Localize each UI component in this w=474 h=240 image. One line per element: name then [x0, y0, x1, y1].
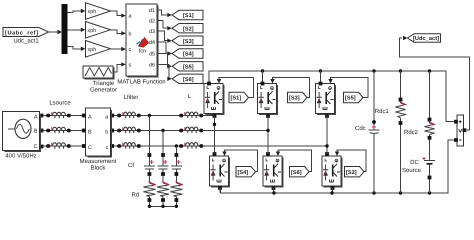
bottom rail junction Cdc — [372, 191, 375, 194]
resistor Rd2 — [157, 182, 169, 197]
svg-text:b: b — [105, 130, 108, 136]
svg-text:DC: DC — [410, 159, 419, 166]
leg3 node — [325, 144, 328, 147]
wire measurement b to Lfilter — [114, 130, 118, 132]
wire triangle generator to fcn s — [113, 62, 126, 72]
gate wire S5 — [328, 78, 368, 98]
inductor Lsource C — [46, 143, 71, 149]
wire L to bridge leg 2 — [203, 130, 269, 132]
wire d4 to goto S4 — [157, 42, 172, 56]
svg-text:xph: xph — [88, 28, 97, 34]
IGBT/Diode S2 — [322, 156, 342, 187]
inductor Lfilter c — [117, 143, 141, 149]
svg-text:[S5]: [S5] — [183, 64, 194, 71]
collector port S5 — [319, 82, 323, 86]
wire gain2 to fcn b — [111, 30, 126, 36]
MATLAB logo — [137, 37, 150, 48]
svg-text:Cdc: Cdc — [355, 125, 366, 132]
rail junction leg2 — [261, 69, 264, 72]
node phase a filter tap — [148, 114, 151, 117]
inductor L a — [179, 112, 203, 118]
svg-text:c: c — [129, 47, 132, 53]
gate wire S1 — [217, 78, 254, 98]
svg-text:xph: xph — [88, 47, 97, 53]
collector port S3 — [261, 82, 265, 86]
svg-text:a: a — [105, 115, 108, 121]
svg-text:Lfilter: Lfilter — [124, 94, 139, 101]
gate wire S4 — [222, 150, 257, 172]
label Triangle Generator — [90, 80, 117, 94]
wire d5 to goto S5 — [157, 54, 172, 69]
svg-text:a: a — [129, 14, 132, 20]
from tag S3 — [288, 92, 308, 102]
Cdc port — [372, 120, 376, 124]
gain xph 1 — [86, 3, 111, 20]
wire Cf branch 2 vertical — [162, 131, 164, 167]
inductor Lfilter b — [117, 127, 141, 133]
svg-text:Source: Source — [402, 167, 422, 174]
wire d3 to goto S3 — [157, 31, 172, 43]
wire d2 to goto S2 — [157, 21, 172, 31]
wire d6 to goto S6 — [157, 65, 172, 82]
wire L to bridge leg 3 — [203, 145, 328, 147]
svg-text:Triangle: Triangle — [93, 80, 115, 87]
svg-text:[S4]: [S4] — [183, 51, 194, 58]
voltage measurement block — [454, 115, 466, 146]
bottom DC rail — [221, 140, 454, 193]
wire Lsource B to measurement block — [70, 130, 84, 132]
svg-text:[S2]: [S2] — [346, 169, 357, 176]
resistor Rdc2 — [425, 122, 435, 135]
wire d1 to goto S1 — [157, 10, 172, 17]
wire Rd2 to star point — [161, 197, 165, 207]
from tag S1 — [229, 92, 249, 102]
capacitor Cf1 — [144, 160, 155, 169]
IGBT/Diode S3 — [258, 84, 278, 115]
svg-text:d2: d2 — [149, 19, 155, 25]
svg-text:Block: Block — [91, 165, 107, 172]
goto tag S5 — [172, 62, 203, 71]
svg-text:Rdc1: Rdc1 — [375, 108, 390, 115]
IGBT/Diode S1 — [204, 84, 224, 115]
collector wire leg3 — [320, 71, 322, 84]
MATLAB Function block — [126, 4, 157, 76]
label DC Source — [402, 159, 422, 174]
wire Cf branch 3 vertical — [175, 146, 177, 166]
svg-text:B: B — [34, 129, 38, 135]
emitter port S1 — [213, 114, 217, 118]
wire measurement a to Lfilter — [114, 115, 118, 117]
rail junction Cdc — [372, 69, 375, 72]
collector port S2 — [325, 152, 329, 156]
from tag S4 — [236, 167, 256, 177]
svg-text:A: A — [34, 115, 38, 121]
resistor Rd1 — [143, 182, 155, 197]
wire demux to gain3 — [68, 46, 86, 51]
gain xph 2 — [86, 22, 111, 39]
IGBT/Diode S4 — [210, 156, 230, 187]
bottom rail junction S2 — [330, 191, 333, 194]
svg-text:Generator: Generator — [90, 87, 117, 94]
wire L to bridge leg 1 — [203, 115, 215, 117]
svg-text:[Udc_act]: [Udc_act] — [413, 35, 439, 42]
svg-text:d5: d5 — [149, 52, 155, 58]
leg2 node — [266, 129, 269, 132]
wire source A to Lsource — [43, 115, 47, 117]
demux — [62, 4, 68, 54]
wire cap to Rd3 — [175, 169, 179, 183]
wire V output to goto Udc_act — [400, 36, 470, 130]
label Measurement Block — [80, 158, 117, 172]
bottom rail junction DC source — [428, 191, 431, 194]
svg-text:c: c — [106, 145, 109, 151]
emitter to bottom rail S6 — [273, 188, 275, 193]
svg-text:[S5]: [S5] — [345, 95, 356, 102]
svg-text:Lsource: Lsource — [49, 100, 71, 107]
collector port S4 — [213, 152, 217, 156]
wire Uabc_ref to demux — [49, 30, 63, 34]
gate wire S2 — [335, 150, 366, 172]
goto tag S1 — [172, 10, 203, 19]
rail junction leg3 — [319, 69, 322, 72]
svg-text:xph: xph — [88, 9, 97, 15]
wire source C to Lsource — [43, 145, 47, 147]
Rdc2/DC branch wire — [429, 71, 431, 193]
triangle generator — [83, 66, 113, 78]
svg-text:s: s — [129, 63, 132, 69]
wire gain1 to fcn a — [111, 11, 126, 18]
Rdc1 branch wire — [400, 71, 402, 193]
IGBT/Diode S6 — [263, 156, 283, 187]
leg3 midpoint wire — [326, 116, 328, 155]
emitter to bottom rail S2 — [332, 188, 334, 193]
goto tag Udc_act — [408, 34, 441, 42]
resistor Rd3 — [170, 182, 182, 197]
wire demux to gain1 — [68, 9, 86, 13]
svg-text:C: C — [88, 145, 92, 151]
svg-text:MATLAB Function: MATLAB Function — [117, 79, 165, 86]
gain xph 3 — [86, 41, 111, 58]
bottom rail junction S6 — [272, 191, 275, 194]
leg1 node — [213, 123, 216, 126]
svg-text:[S4]: [S4] — [238, 169, 249, 176]
gate wire S6 — [276, 150, 312, 172]
svg-text:[S2]: [S2] — [183, 25, 194, 32]
emitter port S5 — [325, 114, 329, 118]
leg2 midpoint wire — [267, 116, 269, 155]
emitter port S2 — [331, 186, 335, 190]
wire Rd3 to star point — [175, 197, 179, 207]
svg-text:[S1]: [S1] — [183, 12, 194, 19]
svg-text:Rdc2: Rdc2 — [404, 129, 419, 136]
wire measurement c to Lfilter — [114, 145, 118, 147]
inductor Lsource A — [46, 112, 71, 118]
IGBT/Diode S5 — [316, 84, 336, 115]
svg-text:[Uabc_ref]: [Uabc_ref] — [5, 29, 38, 36]
svg-text:d1: d1 — [149, 8, 155, 14]
goto tag S6 — [172, 74, 203, 83]
svg-text:d6: d6 — [149, 63, 155, 69]
svg-text:Measurement: Measurement — [80, 158, 117, 165]
top DC rail — [209, 71, 454, 122]
svg-text:d3: d3 — [149, 29, 155, 35]
wire cap to Rd1 — [148, 169, 152, 183]
node phase c filter tap — [175, 144, 178, 147]
collector wire leg2 — [262, 71, 264, 84]
DC source battery — [423, 157, 436, 164]
wire Lsource A to measurement block — [70, 115, 84, 117]
emitter to bottom rail S4 — [219, 188, 221, 193]
inductor Lfilter a — [117, 112, 141, 118]
inductor L c — [179, 143, 203, 149]
wire Lsource C to measurement block — [70, 145, 84, 147]
wire Lfilter to L phase c — [140, 145, 180, 147]
svg-text:d4: d4 — [149, 40, 155, 46]
collector port S1 — [207, 82, 211, 86]
capacitor Cf2 — [158, 160, 169, 169]
wire Lfilter to L phase b — [140, 130, 180, 132]
wire source B to Lsource — [43, 130, 47, 132]
svg-text:[S3]: [S3] — [289, 95, 300, 102]
svg-text:[S6]: [S6] — [183, 76, 194, 83]
svg-text:[S1]: [S1] — [231, 95, 242, 102]
emitter port S6 — [272, 186, 276, 190]
wire gain3 to fcn c — [111, 47, 126, 51]
bottom rail junction Rdc1 — [399, 191, 402, 194]
svg-text:Udc_act1: Udc_act1 — [13, 38, 39, 45]
wire Cf branch 1 vertical — [148, 116, 150, 167]
svg-text:Cf: Cf — [128, 162, 134, 169]
gate wire S3 — [270, 78, 309, 98]
star point wire — [148, 205, 178, 208]
svg-text:400 V/50Hz: 400 V/50Hz — [5, 153, 36, 160]
leg1 midpoint wire — [214, 116, 216, 155]
Cdc branch wire — [373, 71, 375, 193]
svg-text:C: C — [34, 144, 38, 150]
rail junction Rdc2 — [428, 69, 431, 72]
resistor Rdc1 — [396, 102, 406, 119]
goto tag S3 — [172, 36, 203, 45]
node phase b filter tap — [161, 129, 164, 132]
svg-text:B: B — [88, 130, 92, 136]
inductor Lsource B — [46, 127, 71, 133]
from tag Uabc_ref — [3, 28, 49, 37]
collector port S6 — [266, 152, 270, 156]
measurement block — [82, 108, 114, 156]
emitter port S4 — [218, 186, 222, 190]
svg-text:Rd: Rd — [132, 192, 140, 199]
wire cap to Rd2 — [161, 169, 165, 183]
svg-text:[S3]: [S3] — [183, 38, 194, 45]
from tag S6 — [290, 167, 310, 177]
svg-text:A: A — [88, 115, 92, 121]
svg-text:[S6]: [S6] — [291, 169, 302, 176]
wire Rd1 to star point — [148, 197, 152, 207]
three-phase source 400V/50Hz — [3, 112, 44, 151]
rail junction Rdc1 — [399, 69, 402, 72]
wire demux to gain2 — [68, 28, 86, 32]
from tag S2 — [345, 167, 365, 177]
wire Lfilter to L phase a — [140, 115, 180, 117]
capacitor Cdc — [369, 125, 380, 133]
capacitor Cf3 — [171, 160, 182, 169]
inductor L b — [179, 127, 203, 133]
goto tag S4 — [172, 49, 203, 58]
emitter port S3 — [266, 114, 270, 118]
goto tag S2 — [172, 24, 203, 33]
svg-text:b: b — [129, 31, 132, 37]
from tag S5 — [344, 92, 364, 102]
svg-text:fcn: fcn — [139, 47, 146, 54]
